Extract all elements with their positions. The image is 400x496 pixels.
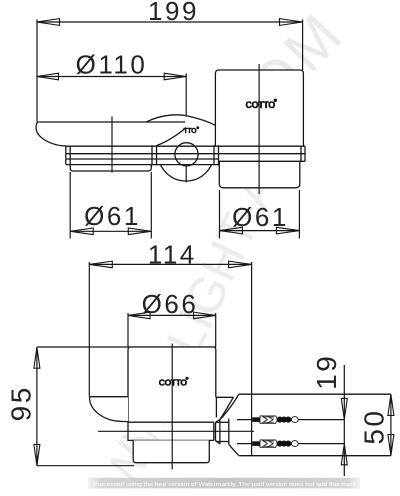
- dimension 199 line: [37, 21, 303, 23]
- dimension Ø110 line: [37, 76, 187, 78]
- screw 1 axis: [237, 419, 344, 421]
- dimension Ø61 right line: [220, 230, 300, 232]
- soap dish top rim line: [37, 121, 185, 123]
- dimension 199 right arrow: [280, 19, 303, 26]
- 95 bottom arrow: [34, 445, 40, 466]
- tumbler cup lower body (front view): [219, 161, 299, 188]
- inner circle of wall mount: [175, 143, 198, 166]
- 95 top arrow: [34, 347, 40, 368]
- wall plate top line: [239, 393, 391, 395]
- screw 1 drawing: [252, 416, 298, 423]
- ring right edge inner: [300, 146, 302, 161]
- collar top edge line: [216, 421, 229, 423]
- svg-text:95: 95: [6, 385, 37, 421]
- Ø61 left extension line (right): [150, 172, 152, 239]
- 50 bottom arrow: [388, 435, 394, 456]
- screw 2 drawing: [252, 440, 298, 447]
- ring bulge top line: [90, 396, 128, 398]
- dimension 114 line: [89, 263, 251, 265]
- wall plate bottom line: [239, 455, 391, 457]
- 19 lower arrow (points up to screw2): [341, 444, 347, 465]
- mount horizontal centerline: [98, 430, 254, 432]
- dimension Ø110 right arrow: [164, 73, 186, 80]
- dish centerline: [111, 117, 113, 173]
- COTTO logo on cup (bottom figure): [159, 377, 189, 388]
- 50 top arrow: [388, 394, 394, 415]
- ring right edge below shoulder: [215, 397, 217, 417]
- tumbler cup upper body (front view): [215, 70, 303, 146]
- svg-text:114: 114: [148, 240, 197, 270]
- dimension Ø61 left line: [70, 230, 151, 232]
- dimension 19 line: [343, 365, 345, 476]
- COTTO logo on mount (top figure): [184, 126, 200, 135]
- mount shoulder line: [216, 396, 234, 398]
- collar flare bottom slant: [216, 441, 221, 445]
- svg-text:Ø66: Ø66: [142, 289, 199, 319]
- Ø66 left arrow: [128, 312, 150, 319]
- band mid line: [66, 153, 305, 155]
- bar left cap inner: [156, 145, 158, 165]
- collar left vertical: [219, 419, 221, 444]
- ring bulge curve: [90, 397, 128, 422]
- svg-text:COTTO: COTTO: [159, 377, 188, 387]
- band bottom line (left part): [66, 164, 219, 166]
- ring right edge outer: [304, 146, 306, 161]
- 95 top extension / cup top line: [37, 346, 216, 348]
- mount post hill top curve: [146, 115, 215, 125]
- Ø61 right arrow west: [220, 227, 243, 234]
- svg-text:50: 50: [359, 409, 390, 445]
- outer circle of wall mount: [158, 125, 214, 181]
- extension line right for 199: [302, 20, 304, 71]
- cup centerline (top figure): [258, 64, 260, 194]
- Ø61 left arrow east: [128, 228, 151, 235]
- ring band top line (side view): [128, 421, 214, 423]
- soap dish body (white fill): [36, 122, 186, 146]
- mount post hill (white cover): [150, 115, 215, 146]
- band bottom line (right ring part): [219, 160, 306, 162]
- 114 left arrow: [89, 261, 112, 268]
- Ø61 right extension line (right): [298, 190, 300, 239]
- ring band bottom line (side view): [128, 439, 214, 441]
- 114 left extension line: [88, 262, 90, 397]
- 95 bottom extension line: [37, 465, 134, 467]
- band left inner edge: [69, 146, 71, 164]
- Ø61 left extension line (left): [69, 172, 71, 239]
- bar left cap outer: [151, 145, 153, 165]
- watermark diagonal text line A: [190, 0, 357, 171]
- screw 2 axis: [237, 443, 344, 445]
- bell outer curve top: [221, 394, 239, 418]
- bell inner curve top: [220, 397, 234, 419]
- extension line left (199 and Ø110 shared): [36, 20, 38, 122]
- dimension Ø66 line: [128, 314, 216, 316]
- COTTO logo on cup (top figure): [246, 99, 277, 111]
- bell outer curve bottom: [229, 444, 239, 455]
- band second mid line (left part): [66, 158, 219, 160]
- dimension Ø110 left arrow: [37, 73, 59, 80]
- collar flare top slant: [216, 419, 221, 422]
- dimension 50 line: [390, 394, 392, 456]
- svg-text:19: 19: [311, 354, 342, 390]
- 114 right extension line / wall face: [251, 262, 253, 456]
- band left outer edge: [65, 146, 67, 164]
- 114 right arrow: [229, 261, 252, 268]
- washer right vertical: [215, 422, 217, 440]
- holder band (white fill): [66, 146, 305, 164]
- cup side view body: [128, 347, 216, 441]
- band top line: [66, 145, 305, 147]
- Ø66 right extension: [215, 313, 217, 347]
- Ø61 right arrow east: [276, 227, 299, 234]
- collar right vertical: [228, 419, 230, 445]
- soap dish left edge curve: [36, 122, 66, 146]
- soap dish right underside curve: [157, 128, 186, 146]
- cup centerline (bottom figure): [171, 344, 173, 470]
- washer left vertical: [213, 422, 215, 440]
- mount centerline / Ø110 right extension: [185, 74, 187, 183]
- svg-text:Processed using the free versi: Processed using the free version of Wate…: [93, 482, 356, 488]
- watermark diagonal text line B: [91, 97, 319, 496]
- 19 upper arrow (points down to screw1): [341, 398, 347, 419]
- bar right cap outer: [213, 145, 215, 165]
- dimension 95 line: [36, 347, 38, 465]
- Ø66 left extension: [127, 313, 129, 347]
- Ø66 right arrow: [194, 312, 216, 319]
- svg-text:199: 199: [148, 0, 199, 26]
- svg-text:COTTO: COTTO: [246, 100, 276, 110]
- soap dish lower body: [70, 164, 151, 171]
- dimension 199 left arrow: [37, 19, 60, 26]
- Ø61 left arrow west: [70, 228, 93, 235]
- collar bottom edge line: [216, 441, 229, 443]
- bar right cap inner: [218, 145, 220, 165]
- cup lower narrow body (side view): [133, 440, 209, 462]
- svg-text:Ø61: Ø61: [84, 201, 141, 231]
- ring side view left bulge: [90, 397, 128, 422]
- svg-text:TTO: TTO: [184, 128, 198, 135]
- svg-text:Ø110: Ø110: [76, 50, 148, 80]
- Ø61 right extension line (left): [219, 190, 221, 239]
- svg-text:Ø61: Ø61: [232, 202, 289, 232]
